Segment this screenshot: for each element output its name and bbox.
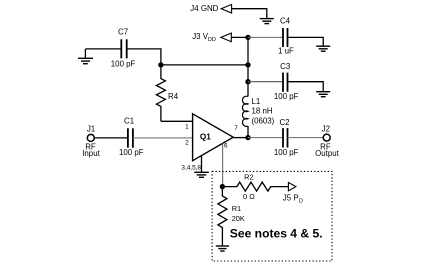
svg-text:(0603): (0603) <box>252 116 275 125</box>
svg-text:20K: 20K <box>232 214 245 223</box>
ground (Q1) <box>194 172 209 177</box>
svg-text:1: 1 <box>185 123 189 130</box>
wire C1 to pin 2 <box>133 137 193 139</box>
wire node A to VDD bus <box>161 64 248 66</box>
svg-text:100 pF: 100 pF <box>111 59 136 68</box>
node C junction <box>245 79 250 84</box>
wire J1 to C1 <box>94 137 128 139</box>
svg-text:R4: R4 <box>168 92 179 101</box>
svg-text:100 pF: 100 pF <box>274 148 299 157</box>
capacitor C1 <box>128 128 133 147</box>
wire C3 to ground <box>288 82 324 92</box>
svg-text:Q1: Q1 <box>200 133 211 142</box>
resistor R1 <box>218 187 227 246</box>
connector J3 arrow <box>221 33 231 42</box>
wire ground to C7 <box>85 48 121 50</box>
wire pin 6 down <box>222 144 224 187</box>
svg-text:L1: L1 <box>252 97 261 106</box>
svg-text:3,4,5,8: 3,4,5,8 <box>181 165 201 172</box>
wire J3 to node VDD <box>231 36 248 38</box>
connector J1 circle <box>87 134 94 141</box>
capacitor C7 <box>121 39 126 58</box>
svg-text:J4 GND: J4 GND <box>190 4 218 13</box>
svg-text:100 pF: 100 pF <box>119 148 144 157</box>
capacitor C2 <box>283 128 288 147</box>
svg-text:C3: C3 <box>280 62 291 71</box>
resistor R4 <box>156 65 165 121</box>
wire VDD bus vertical <box>247 37 249 96</box>
svg-text:See notes 4 & 5.: See notes 4 & 5. <box>230 227 323 241</box>
dotted notes box <box>212 171 332 261</box>
wire C4 to ground <box>288 37 324 45</box>
node A junction <box>158 62 163 67</box>
capacitor C4 <box>283 28 288 47</box>
wire pins 3,4,5,8 to ground <box>201 156 203 172</box>
connector J2 circle <box>323 134 330 141</box>
svg-text:J2: J2 <box>322 124 330 133</box>
svg-text:1 uF: 1 uF <box>278 46 294 55</box>
wire L1 to output node <box>247 126 249 138</box>
ground (C4) <box>316 46 330 51</box>
svg-text:C1: C1 <box>124 117 134 126</box>
wire J4 to ground <box>232 9 267 19</box>
svg-text:Output: Output <box>315 149 339 158</box>
wire Q1 output to node D <box>233 137 248 139</box>
wire node D to C2 <box>248 137 283 139</box>
svg-text:C2: C2 <box>279 118 289 127</box>
transistor Q1 (amplifier triangle) <box>193 114 234 161</box>
ground (C7 left) <box>84 49 86 58</box>
svg-text:J3 V: J3 V <box>192 32 209 41</box>
svg-text:J5 P: J5 P <box>283 193 299 202</box>
wire C2 to J2 <box>288 137 324 139</box>
capacitor C3 <box>283 73 288 92</box>
svg-text:C7: C7 <box>118 27 128 36</box>
svg-text:6: 6 <box>224 143 228 150</box>
svg-text:18 nH: 18 nH <box>252 107 273 116</box>
svg-text:DD: DD <box>208 37 216 43</box>
connector J5 arrow <box>288 182 296 190</box>
svg-text:Input: Input <box>82 149 100 158</box>
ground (J4) <box>260 19 274 24</box>
inductor L1 <box>242 96 248 126</box>
wire R4 to pin 1 <box>161 120 193 122</box>
connector J4 arrow <box>221 4 231 13</box>
svg-text:D: D <box>299 198 303 204</box>
resistor R2 <box>222 182 288 191</box>
svg-text:R2: R2 <box>244 172 253 181</box>
svg-text:C4: C4 <box>280 16 291 25</box>
node D junction <box>245 135 250 140</box>
wire C7 to node A <box>127 49 161 65</box>
svg-text:100 pF: 100 pF <box>274 92 299 101</box>
wire node VDD to C4 <box>248 36 283 38</box>
wire node C to C3 <box>248 81 283 83</box>
node VDD junction <box>245 35 250 40</box>
node B junction <box>245 62 250 67</box>
svg-text:2: 2 <box>185 139 189 146</box>
svg-text:J1: J1 <box>87 124 95 133</box>
svg-text:R1: R1 <box>232 204 241 213</box>
svg-text:7: 7 <box>234 125 238 132</box>
node E junction <box>220 184 225 189</box>
ground (R1) <box>216 246 229 251</box>
svg-text:0 Ω: 0 Ω <box>243 192 255 201</box>
ground (C3) <box>316 92 330 97</box>
